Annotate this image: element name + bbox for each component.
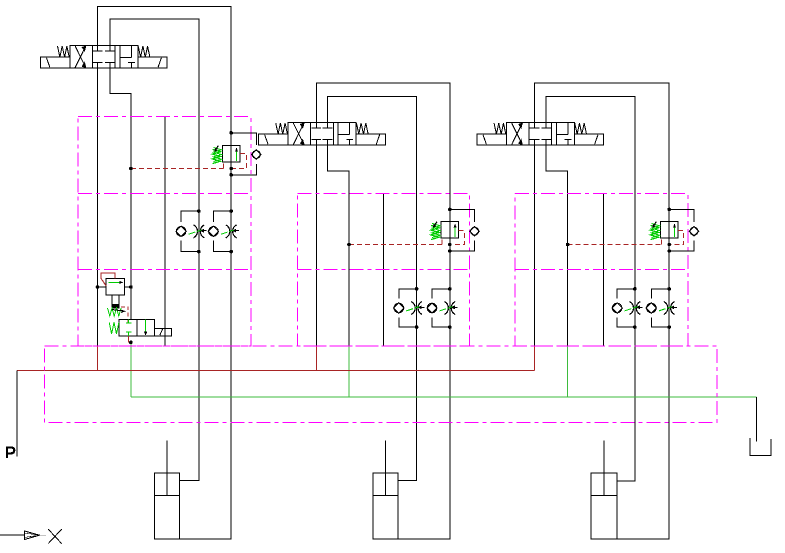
wire: T1 drain below unloading valve (green) — [130, 342, 132, 397]
one-way throttle valve TC1b — [208, 209, 239, 253]
check valve bypass of RV3 — [667, 208, 698, 253]
cylinder CY2 — [373, 441, 398, 539]
cylinder CY3 — [591, 441, 617, 539]
manifold section 2 partition line — [298, 268, 470, 270]
wire: pressure line P2 from valve DV2 — [315, 145, 317, 346]
wire: line B2 reducing valve to throttle TC2b — [449, 209, 451, 289]
wire: T2 drain to tank rail (green) — [348, 346, 350, 397]
check valve bypass of RV2 — [448, 208, 479, 253]
wire: line B3 reducing valve to throttle TC3b — [668, 209, 670, 289]
manifold section 1 boundary — [78, 117, 251, 346]
wire: line A3 down to cylinder CY3 rod side — [617, 327, 635, 481]
pilot drain line to valve V4 (red) — [121, 307, 128, 323]
wire: tank drop line — [755, 397, 757, 441]
manifold section 3 partition line — [515, 268, 688, 270]
spring of pilot stage (green) — [108, 308, 127, 316]
drain stub of V4 (red) — [129, 336, 131, 343]
wire: tank return rail (green) — [131, 396, 757, 398]
wire: line B2 down to cylinder CY2 cap end — [398, 327, 450, 539]
wire: line A2 down to cylinder CY2 rod side — [398, 327, 417, 481]
manifold section 2 boundary — [298, 193, 470, 345]
cylinder CY1 — [154, 441, 179, 539]
wire: valve DV2 port B over-the-top link to line A2 — [328, 96, 417, 289]
pressure reducing valve RV1 — [212, 145, 240, 163]
wire: line B1 down to cylinder CY1 cap end — [180, 252, 232, 539]
pilot operated relief valve S1 — [96, 278, 133, 295]
4/3 solenoid directional valve DV2 — [259, 123, 386, 146]
check valve bypass of RV1 — [229, 131, 261, 177]
X axis arrow — [0, 531, 46, 540]
wire: valve DV3 port B over-the-top link to line A3 — [546, 96, 635, 289]
wire: valve DV1 port A over-the-top link to line B1 — [98, 6, 232, 132]
one-way throttle valve TC3a — [612, 287, 643, 329]
pilot sense loop of S1 (red) — [101, 273, 115, 286]
one-way throttle valve TC1a — [176, 209, 207, 253]
wire: section 3 mid line — [602, 193, 604, 345]
manifold section 1 partition lines — [78, 193, 251, 269]
one-way throttle valve TC2a — [394, 287, 425, 329]
wire: line B3 down to cylinder CY3 cap end — [617, 327, 669, 539]
wire: P2 feed to pressure rail (red) — [315, 346, 317, 371]
solenoid unloading valve V4 — [109, 320, 171, 336]
junction node at V4 drain — [129, 341, 133, 345]
one-way throttle valve TC2b — [427, 287, 458, 329]
axis label X — [48, 529, 62, 543]
wire: tank line T3 jog from valve DV3 — [546, 145, 567, 346]
wire: valve DV3 port A over-the-top link to line B3 — [534, 83, 669, 210]
wire: valve DV1 port B over-the-top link to line A1 — [110, 19, 199, 211]
manifold section 3 boundary — [515, 193, 688, 345]
wire: section 1 mid line — [164, 117, 166, 346]
wire: pressure line P1 from valve DV1 — [97, 68, 99, 346]
pilot line of RV3 — [566, 231, 684, 247]
one-way throttle valve TC3b — [646, 287, 677, 329]
wire: P3 feed to pressure rail (red) — [533, 346, 535, 371]
4/3 solenoid directional valve DV1 — [40, 46, 167, 69]
wire: pressure rail P (red) — [17, 369, 534, 371]
wire: line A1 down to cylinder CY1 rod side — [180, 252, 199, 481]
wire: line B1 reducing valve to throttle TC1b — [230, 133, 232, 211]
wire: tank line T1 jog from valve DV1 — [110, 68, 131, 320]
solenoid pilot stage of S1 — [112, 295, 119, 308]
pressure reducing valve RV2 — [431, 221, 459, 239]
wire: valve DV2 port A over-the-top link to line B2 — [316, 83, 450, 210]
wire: tank line T2 jog from valve DV2 — [328, 145, 349, 346]
port label P — [7, 447, 14, 458]
4/3 solenoid directional valve DV3 — [477, 123, 604, 146]
wire: pressure line P3 from valve DV3 — [533, 145, 535, 346]
wire: section 2 mid line — [382, 193, 384, 345]
pilot line of RV2 — [347, 231, 464, 247]
tank T — [750, 438, 771, 455]
wire: P inlet riser — [16, 370, 18, 456]
manifold base block boundary — [45, 346, 718, 423]
wire: T3 drain to tank rail (green) — [567, 346, 569, 397]
pressure reducing valve RV3 — [650, 221, 678, 239]
wire: P1 feed to pressure rail (red) — [97, 346, 99, 371]
pilot line of RV1 — [129, 154, 247, 171]
